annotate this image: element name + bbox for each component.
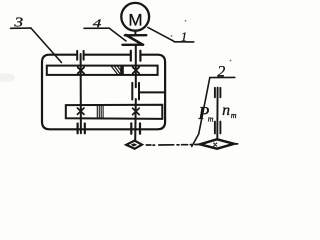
svg-text:4: 4 [93, 16, 102, 30]
svg-text:т: т [208, 114, 214, 123]
svg-text:т: т [231, 111, 237, 120]
svg-text:2: 2 [217, 63, 225, 80]
svg-text:M: M [128, 10, 142, 29]
svg-text:1: 1 [181, 30, 187, 44]
svg-text:n: n [222, 102, 230, 119]
svg-text:3: 3 [13, 15, 23, 30]
